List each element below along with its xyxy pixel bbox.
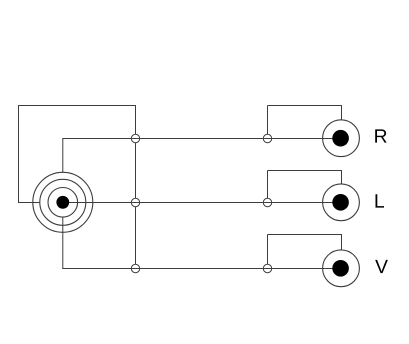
jack tip contact dot (56, 196, 69, 209)
node junction at V riser (263, 264, 271, 272)
RCA connector R shell (323, 120, 360, 157)
jack sleeve outer circle (33, 172, 93, 232)
wire V shell riser top (268, 235, 342, 250)
RCA connector V pin (332, 260, 349, 277)
wire jack ring1 bottom lead (62, 217, 64, 269)
wire jack tip right lead / L signal line (63, 202, 341, 204)
wire left vertical to top (18, 105, 20, 203)
wire R shell riser top (268, 106, 342, 120)
RCA connector V shell (323, 250, 360, 287)
wire top horizontal to bus (19, 105, 137, 107)
RCA connector L shell (323, 184, 360, 221)
label V (375, 260, 388, 273)
wire riser L shell vertical (267, 171, 269, 203)
wire jack sleeve top lead (62, 139, 64, 173)
label L (376, 194, 385, 207)
wire V signal line (62, 268, 341, 270)
RCA connector R pin (332, 130, 349, 147)
wire ground bus vertical (135, 106, 137, 269)
jack ring1 circle (48, 188, 78, 218)
node junction at L riser (263, 198, 271, 206)
wire L shell riser top (268, 171, 342, 184)
RCA connector L pin (332, 194, 349, 211)
wire R signal line (62, 138, 341, 140)
wire riser R shell vertical (267, 106, 269, 139)
node junction at bus / V line (131, 264, 139, 272)
wire riser V shell vertical (267, 235, 269, 269)
node junction at bus / R line (131, 134, 139, 142)
node junction at bus / L line (131, 198, 139, 206)
jack ring2 circle (40, 179, 86, 225)
label R (375, 129, 386, 142)
node junction at R riser (263, 134, 271, 142)
jack plug J1 (3.5mm TRRS cross-section) (33, 172, 93, 232)
wire jack ring2 left lead (19, 202, 40, 204)
